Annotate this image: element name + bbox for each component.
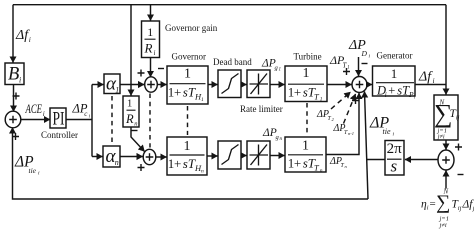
svg-text:i: i xyxy=(19,76,21,85)
svg-text:+: + xyxy=(174,85,181,100)
svg-text:n: n xyxy=(280,137,283,142)
svg-text:n: n xyxy=(201,168,204,174)
svg-text:R: R xyxy=(125,112,134,126)
svg-text:+: + xyxy=(174,156,181,171)
svg-text:D: D xyxy=(361,49,368,58)
svg-text:Generator: Generator xyxy=(377,51,413,61)
svg-text:i: i xyxy=(154,49,156,57)
svg-text:c: c xyxy=(84,110,88,118)
svg-text:1: 1 xyxy=(302,139,309,154)
svg-text:Turbine: Turbine xyxy=(294,52,322,62)
svg-text:n: n xyxy=(134,121,137,128)
svg-text:1: 1 xyxy=(347,66,350,71)
svg-text:1: 1 xyxy=(391,66,398,81)
svg-text:R: R xyxy=(144,40,153,55)
svg-text:j≠i: j≠i xyxy=(439,222,447,229)
svg-text:1: 1 xyxy=(279,68,282,73)
svg-text:2π: 2π xyxy=(387,141,403,157)
svg-text:+: + xyxy=(294,84,301,99)
svg-text:i: i xyxy=(369,54,371,60)
svg-text:i: i xyxy=(38,171,40,177)
svg-text:s: s xyxy=(390,156,397,175)
svg-text:n-1: n-1 xyxy=(348,131,354,136)
svg-text:i: i xyxy=(43,110,45,118)
svg-text:1: 1 xyxy=(127,97,132,109)
svg-text:i: i xyxy=(433,76,435,85)
svg-text:Governor: Governor xyxy=(172,52,207,62)
svg-text:+: + xyxy=(294,156,301,171)
svg-text:Rate limiter: Rate limiter xyxy=(240,104,283,114)
svg-text:ij: ij xyxy=(458,205,462,212)
svg-text:1: 1 xyxy=(184,139,191,154)
svg-text:i: i xyxy=(385,91,387,99)
svg-text:PI: PI xyxy=(53,109,65,130)
svg-text:i: i xyxy=(89,115,91,120)
svg-text:B: B xyxy=(8,65,19,85)
svg-text:j≠i: j≠i xyxy=(437,134,445,141)
svg-text:1: 1 xyxy=(320,97,323,103)
svg-text:n: n xyxy=(345,164,348,169)
svg-text:ij: ij xyxy=(456,115,460,122)
svg-text:sT: sT xyxy=(183,156,196,171)
svg-text:Governor gain: Governor gain xyxy=(165,23,218,33)
svg-text:1: 1 xyxy=(201,97,204,103)
svg-text:tie: tie xyxy=(383,127,391,136)
svg-text:1: 1 xyxy=(303,66,310,81)
svg-text:i: i xyxy=(393,132,395,138)
svg-text:Δf: Δf xyxy=(418,70,433,85)
svg-text:Controller: Controller xyxy=(41,130,78,140)
svg-text:1: 1 xyxy=(115,86,119,95)
svg-text:1: 1 xyxy=(184,67,191,82)
svg-text:i: i xyxy=(427,205,429,212)
svg-text:i: i xyxy=(29,35,31,44)
svg-text:tie: tie xyxy=(29,166,37,175)
svg-text:N: N xyxy=(443,188,449,196)
svg-text:=: = xyxy=(430,198,436,210)
svg-text:2: 2 xyxy=(332,117,335,122)
svg-text:sT: sT xyxy=(183,85,196,100)
svg-text:+: + xyxy=(388,84,395,98)
svg-text:n: n xyxy=(115,158,119,167)
svg-text:ACE: ACE xyxy=(25,101,42,116)
svg-text:n: n xyxy=(320,168,323,174)
svg-text:Dead band: Dead band xyxy=(213,57,252,67)
svg-text:1: 1 xyxy=(147,25,153,39)
